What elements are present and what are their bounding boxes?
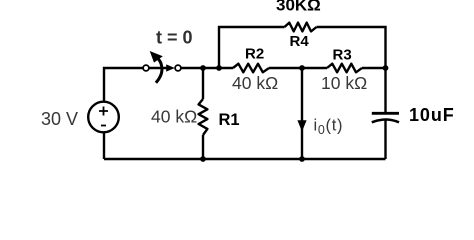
junction dot R1 bottom <box>200 156 206 162</box>
svg-text:R3: R3 <box>333 46 352 63</box>
junction dot right node <box>383 65 389 71</box>
svg-text:10uF: 10uF <box>409 105 455 125</box>
svg-text:R2: R2 <box>245 46 264 63</box>
current arrow io(t) <box>297 120 306 131</box>
resistor R3 zigzag <box>327 64 362 73</box>
svg-text:30 V: 30 V <box>41 109 78 129</box>
junction dot top-loop branch <box>216 65 222 71</box>
switch t=0 <box>143 51 181 83</box>
voltage source V1 <box>88 102 119 133</box>
top loop wire from R4 down to right node <box>317 27 386 68</box>
switch terminal circle left <box>143 65 149 71</box>
R1 branch top wire <box>202 68 204 99</box>
junction dot io bottom <box>299 156 305 162</box>
svg-text:R4: R4 <box>290 33 310 50</box>
svg-text:30KΩ: 30KΩ <box>276 0 321 15</box>
resistor R2 zigzag <box>233 64 269 73</box>
svg-text:40 kΩ: 40 kΩ <box>151 107 197 127</box>
switch blade arrowhead <box>166 64 175 71</box>
wire from source top to switch left terminal <box>104 68 143 102</box>
switch motion arrowhead <box>150 51 163 63</box>
R1 branch bottom wire <box>202 135 204 159</box>
capacitor C1 plates <box>372 113 399 122</box>
svg-text:40 kΩ: 40 kΩ <box>232 73 278 93</box>
resistor R1 zigzag (vertical) <box>199 99 208 135</box>
bottom wire (ground rail) <box>104 158 386 160</box>
capacitor branch top wire <box>384 68 386 114</box>
capacitor branch bottom wire <box>384 121 386 160</box>
switch blade wire <box>149 67 167 69</box>
svg-text:R1: R1 <box>219 111 240 129</box>
switch terminal circle right <box>175 65 181 71</box>
svg-text:t = 0: t = 0 <box>156 28 193 48</box>
junction dot node R1 top <box>200 65 206 71</box>
wire from switch to R2 <box>181 67 233 69</box>
wire from R2 to R3 <box>269 67 327 69</box>
svg-text:10 kΩ: 10 kΩ <box>321 73 367 93</box>
top loop wire up and to R4 <box>219 27 285 68</box>
wire from R3 to right node <box>362 67 386 69</box>
wire from source bottom to ground rail <box>103 132 105 159</box>
io branch wire <box>301 68 303 159</box>
resistor R4 zigzag <box>285 23 317 32</box>
switch motion arc <box>156 59 162 83</box>
junction dot node io branch <box>299 65 305 71</box>
